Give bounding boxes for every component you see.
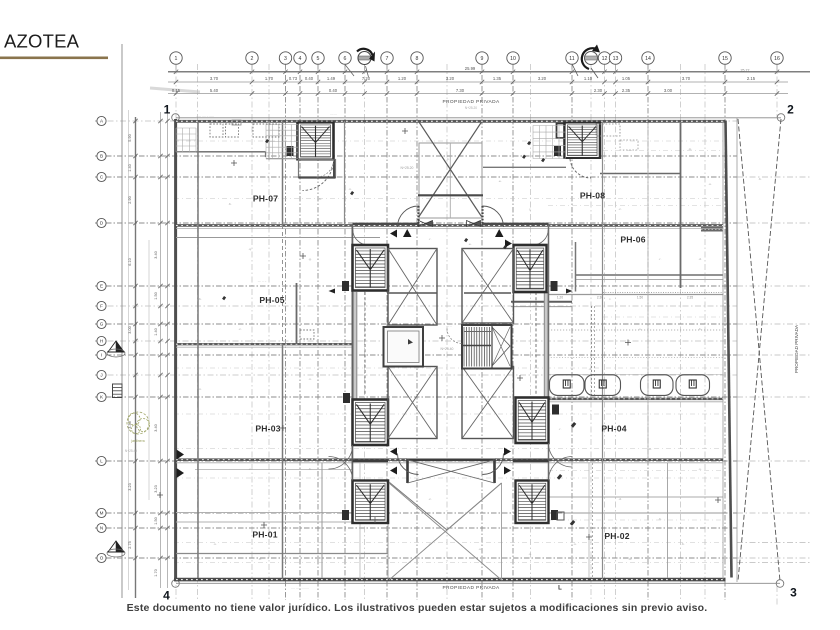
svg-text:·n·: ·n· [588, 367, 592, 371]
svg-text:PH-05: PH-05 [259, 295, 284, 305]
svg-text:·d·: ·d· [618, 497, 622, 501]
svg-text:.... ...... .......: .... ...... ....... [291, 586, 309, 590]
svg-text:·u·: ·u· [428, 542, 432, 546]
svg-text:2.15: 2.15 [747, 76, 756, 81]
svg-text:3.23: 3.23 [128, 483, 132, 490]
svg-text:7.30: 7.30 [456, 88, 465, 93]
svg-text:1.20: 1.20 [398, 76, 407, 81]
svg-text:N: N [100, 526, 103, 531]
svg-text:·s·: ·s· [528, 552, 532, 556]
svg-text:1.20: 1.20 [557, 296, 563, 300]
svg-text:·h·: ·h· [658, 517, 662, 521]
svg-text:jardinera: jardinera [130, 439, 144, 443]
svg-text:·b·: ·b· [258, 557, 262, 561]
svg-text:3.23: 3.23 [154, 485, 158, 492]
svg-text:G: G [100, 322, 104, 327]
svg-text:·g·: ·g· [308, 257, 312, 261]
svg-text:·b·: ·b· [698, 327, 702, 331]
svg-text:7: 7 [386, 56, 389, 62]
svg-text:·b·: ·b· [198, 297, 202, 301]
svg-text:0.40: 0.40 [305, 76, 314, 81]
svg-text:·d·: ·d· [698, 257, 702, 261]
svg-text:0.40: 0.40 [329, 88, 338, 93]
svg-text:3.20: 3.20 [538, 76, 547, 81]
svg-text:11: 11 [569, 56, 574, 62]
svg-text:L: L [100, 459, 103, 464]
svg-text:6: 6 [344, 56, 347, 62]
svg-text:·b·: ·b· [648, 447, 652, 451]
svg-text:PH-01: PH-01 [252, 530, 277, 540]
svg-text:7.20: 7.20 [362, 76, 371, 81]
svg-text:2.75: 2.75 [128, 541, 132, 548]
svg-text:.... .. ..: .... .. .. [258, 279, 267, 283]
svg-text:Este documento no tiene valor: Este documento no tiene valor jurídico. … [127, 602, 708, 614]
svg-text:M: M [100, 511, 104, 516]
svg-text:·s·: ·s· [573, 542, 577, 546]
svg-text:·m·: ·m· [628, 557, 633, 561]
svg-text:·c·: ·c· [238, 327, 242, 331]
svg-text:2.35: 2.35 [622, 88, 631, 93]
svg-text:25.99: 25.99 [465, 66, 476, 71]
svg-text:PROPIEDAD PRIVADA: PROPIEDAD PRIVADA [442, 585, 499, 591]
svg-text:1.49: 1.49 [327, 76, 336, 81]
svg-text:·j·: ·j· [529, 207, 532, 211]
svg-text:·n·: ·n· [348, 187, 352, 191]
svg-text:·c·: ·c· [428, 497, 432, 501]
svg-text:1.40: 1.40 [154, 328, 158, 335]
svg-text:B: B [100, 154, 103, 159]
svg-text:12: 12 [602, 56, 608, 62]
svg-text:1.50: 1.50 [154, 292, 158, 299]
svg-text:N+25.40: N+25.40 [125, 449, 137, 453]
svg-text:2.90: 2.90 [128, 196, 132, 203]
svg-text:PH-08: PH-08 [580, 191, 605, 201]
svg-text:1.40: 1.40 [128, 164, 132, 171]
svg-text:PROPIEDAD PRIVADA: PROPIEDAD PRIVADA [442, 99, 499, 105]
svg-text:4: 4 [299, 56, 302, 62]
svg-text:F: F [100, 304, 103, 309]
svg-text:PH-03: PH-03 [255, 424, 280, 434]
svg-text:1.70: 1.70 [265, 76, 274, 81]
svg-text:·r·: ·r· [429, 237, 432, 241]
svg-text:·m·: ·m· [688, 147, 693, 151]
svg-text:9: 9 [481, 56, 484, 62]
svg-text:·k·: ·k· [446, 157, 450, 161]
svg-text:1.05: 1.05 [622, 76, 631, 81]
svg-text:N+25.40: N+25.40 [441, 347, 454, 351]
svg-text:1.10: 1.10 [584, 76, 593, 81]
svg-text:·s·: ·s· [698, 467, 702, 471]
svg-text:3.00: 3.00 [664, 88, 673, 93]
svg-text:5.90: 5.90 [128, 134, 132, 141]
svg-text:6.10: 6.10 [128, 258, 132, 265]
svg-text:4: 4 [163, 589, 170, 603]
svg-text:3: 3 [284, 56, 287, 62]
svg-text:·h·: ·h· [308, 467, 312, 471]
svg-text:·r·: ·r· [659, 257, 662, 261]
svg-text:L: L [558, 586, 562, 592]
svg-text:·s·: ·s· [213, 542, 217, 546]
svg-text:15: 15 [722, 56, 728, 62]
svg-text:1.70: 1.70 [154, 569, 158, 576]
svg-text:.... ...: .... ... [330, 112, 337, 116]
svg-text:·r·: ·r· [559, 427, 562, 431]
svg-text:J: J [100, 373, 102, 378]
svg-text:14: 14 [645, 56, 651, 62]
svg-text:2.30: 2.30 [597, 296, 603, 300]
svg-text:N+25.20: N+25.20 [465, 106, 477, 110]
svg-text:·u·: ·u· [708, 182, 712, 186]
svg-text:E: E [100, 284, 103, 289]
svg-text:2: 2 [787, 103, 794, 117]
svg-text:·b·: ·b· [228, 202, 232, 206]
svg-text:16: 16 [774, 56, 780, 62]
svg-text:PH-04: PH-04 [601, 424, 626, 434]
svg-text:1: 1 [175, 56, 178, 62]
svg-text:1.35: 1.35 [493, 76, 502, 81]
svg-text:I: I [101, 353, 102, 358]
svg-text:·n·: ·n· [308, 377, 312, 381]
svg-text:3.70: 3.70 [682, 76, 691, 81]
svg-text:·e·: ·e· [498, 179, 502, 183]
svg-text:0.15: 0.15 [172, 88, 181, 93]
svg-text:8: 8 [416, 56, 419, 62]
svg-text:·s·: ·s· [638, 327, 642, 331]
svg-text:5: 5 [317, 56, 320, 62]
svg-text:3.00: 3.00 [128, 326, 132, 333]
svg-text:·q·: ·q· [248, 247, 252, 251]
svg-text:1.50: 1.50 [154, 517, 158, 524]
svg-text:.... ..: .... .. [446, 324, 452, 328]
svg-text:H: H [100, 339, 103, 344]
svg-text:·u·: ·u· [478, 547, 482, 551]
svg-text:·b·: ·b· [758, 177, 762, 181]
svg-text:·b·: ·b· [681, 542, 685, 546]
svg-text:25.77: 25.77 [741, 69, 750, 73]
svg-text:PH-06: PH-06 [620, 235, 645, 245]
svg-text:N+25.20: N+25.20 [401, 166, 414, 170]
svg-text:·c·: ·c· [618, 207, 622, 211]
svg-text:O: O [100, 556, 104, 561]
svg-text:3.40: 3.40 [154, 424, 158, 431]
svg-text:PH-02: PH-02 [604, 531, 629, 541]
svg-text:1.50: 1.50 [637, 296, 643, 300]
svg-text:PH-07: PH-07 [253, 194, 278, 204]
svg-text:PROPIEDAD PRIVADA: PROPIEDAD PRIVADA [794, 324, 799, 373]
svg-text:5.40: 5.40 [210, 88, 219, 93]
svg-text:2.30: 2.30 [594, 88, 603, 93]
svg-text:2: 2 [251, 56, 254, 62]
svg-text:10: 10 [510, 56, 516, 62]
svg-text:3.40: 3.40 [154, 251, 158, 258]
svg-text:·l·: ·l· [609, 297, 612, 301]
svg-text:·n·: ·n· [198, 387, 202, 391]
svg-text:2.35: 2.35 [687, 296, 693, 300]
svg-text:AZOTEA: AZOTEA [4, 31, 80, 52]
svg-text:3.70: 3.70 [210, 76, 219, 81]
svg-text:1: 1 [164, 103, 171, 117]
svg-text:...... .... .. .....: ...... .... .. ..... [196, 114, 214, 118]
svg-text:3: 3 [790, 586, 797, 600]
svg-text:13: 13 [613, 56, 619, 62]
svg-text:·c·: ·c· [248, 467, 252, 471]
svg-text:0.73: 0.73 [289, 76, 298, 81]
svg-text:·h·: ·h· [318, 197, 322, 201]
svg-text:3.20: 3.20 [446, 76, 455, 81]
svg-text:·e·: ·e· [468, 242, 472, 246]
